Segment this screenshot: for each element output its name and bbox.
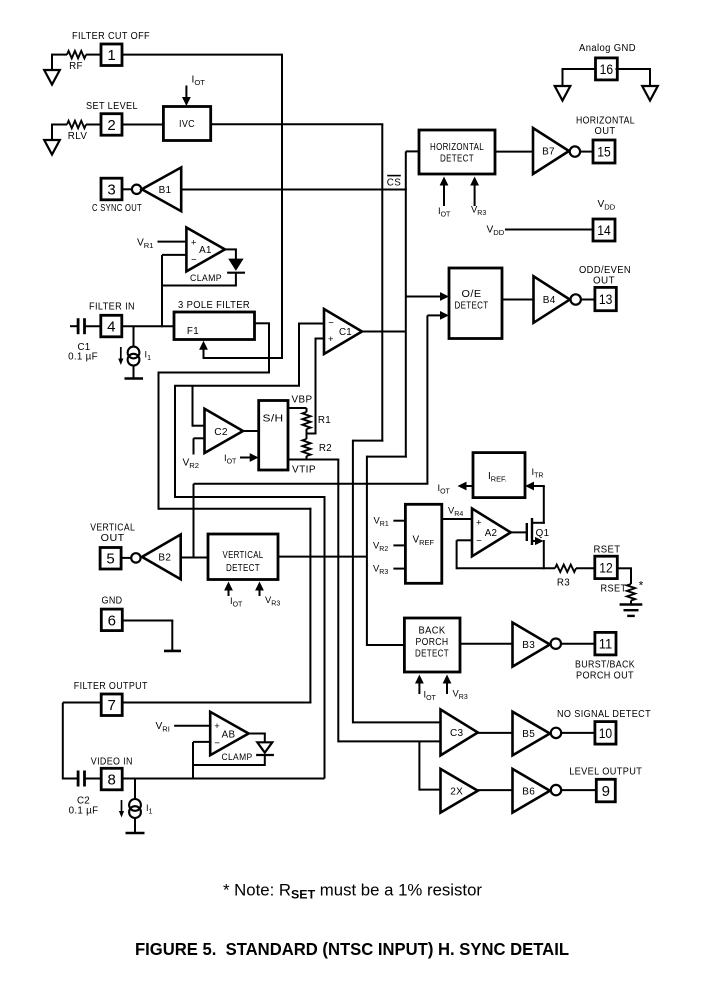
comparator C3 bbox=[441, 710, 478, 756]
pin 10 box bbox=[595, 722, 616, 745]
wire C2 output bbox=[243, 430, 259, 432]
IOT arrow into IVC bbox=[185, 86, 187, 101]
wire pin3 to B1 bubble bbox=[122, 188, 133, 190]
svg-text:VERTICAL: VERTICAL bbox=[90, 523, 135, 534]
block BACK PORCH DETECT bbox=[404, 618, 460, 672]
svg-text:+: + bbox=[328, 334, 334, 345]
pin 7 box bbox=[101, 694, 122, 716]
svg-text:NO SIGNAL DETECT: NO SIGNAL DETECT bbox=[557, 709, 651, 720]
node VTIP wire bbox=[306, 456, 308, 460]
arrow I1 direction (video) bbox=[121, 800, 123, 814]
svg-text:R2: R2 bbox=[319, 443, 332, 454]
IOT arrow out of IREF bbox=[464, 485, 474, 487]
wire CS dogleg to back porch detect bbox=[367, 456, 407, 458]
svg-text:FILTER OUTPUT: FILTER OUTPUT bbox=[74, 681, 148, 692]
svg-text:LEVEL OUTPUT: LEVEL OUTPUT bbox=[569, 767, 642, 778]
wire pin8 video line bbox=[123, 778, 325, 780]
wire A2 output to Q1 gate bbox=[511, 531, 527, 533]
wire pin5 to B2 bubble bbox=[121, 557, 131, 559]
svg-text:RF: RF bbox=[69, 61, 83, 72]
svg-text:2X: 2X bbox=[450, 786, 463, 797]
svg-text:C SYNC OUT: C SYNC OUT bbox=[92, 203, 142, 214]
buffer B6 bbox=[513, 769, 550, 813]
svg-text:7: 7 bbox=[108, 697, 116, 714]
arrow into O/E detect (vertical input) bbox=[427, 314, 443, 316]
wire pin12 to RSET resistor bbox=[617, 567, 632, 569]
B5 bubble bbox=[551, 728, 561, 738]
wire S/H to R1 bbox=[288, 407, 307, 409]
node VR2 stub bbox=[393, 544, 405, 546]
buffer B7 bbox=[533, 128, 569, 174]
IOT arrow into VERTICAL DETECT bbox=[228, 588, 230, 597]
ground bar (pin 6) bbox=[164, 650, 181, 653]
svg-text:9: 9 bbox=[602, 783, 610, 800]
ground (RF) bbox=[44, 70, 60, 85]
svg-text:RLV: RLV bbox=[68, 131, 88, 142]
wire VERTICAL DETECT output to back porch net bbox=[278, 556, 367, 558]
svg-text:14: 14 bbox=[597, 222, 611, 238]
block VERTICAL DETECT bbox=[208, 534, 278, 580]
node VR1 stub bbox=[393, 520, 405, 522]
svg-text:GND: GND bbox=[102, 596, 123, 607]
pin 14 box bbox=[593, 219, 615, 241]
wire AB inverting input to video net bbox=[193, 741, 210, 743]
ground bar (I1) bbox=[125, 377, 144, 380]
wire C3 to B5 bbox=[478, 732, 513, 734]
wire BACK PORCH DETECT to B3 bbox=[460, 643, 513, 645]
B4 bubble bbox=[571, 294, 581, 304]
wire IVC output bus bbox=[211, 123, 384, 125]
ground bar (I1 video) bbox=[126, 832, 145, 835]
svg-text:CLAMP: CLAMP bbox=[222, 752, 253, 763]
svg-text:OUT: OUT bbox=[595, 126, 616, 137]
block S/H sample-hold bbox=[259, 401, 288, 471]
svg-text:B7: B7 bbox=[542, 147, 555, 158]
comparator C1 bbox=[324, 309, 362, 354]
svg-text:DETECT: DETECT bbox=[455, 300, 489, 311]
B3 bubble bbox=[551, 639, 561, 649]
wire B3 to pin 11 bbox=[562, 643, 595, 645]
current source I1 (video in) bbox=[134, 779, 136, 800]
wire B5 to pin 10 bbox=[562, 732, 595, 734]
svg-text:R3: R3 bbox=[557, 578, 570, 589]
svg-text:PORCH OUT: PORCH OUT bbox=[576, 671, 634, 682]
svg-text:DETECT: DETECT bbox=[440, 154, 474, 165]
IOT arrow into HORIZONTAL DETECT bbox=[443, 183, 445, 207]
ground (RLV) bbox=[44, 140, 60, 155]
wire pin1 output to filter cutoff bus bbox=[122, 54, 283, 56]
svg-text:IVC: IVC bbox=[179, 118, 195, 130]
svg-text:B2: B2 bbox=[158, 552, 171, 563]
ground (pin16 right) bbox=[642, 86, 658, 101]
pin 1 box bbox=[101, 44, 122, 66]
VR3 arrow into HORIZONTAL DETECT bbox=[474, 183, 476, 207]
svg-text:5: 5 bbox=[106, 551, 114, 568]
wire A2 feedback to R3 bbox=[457, 539, 472, 541]
wire C1 output bbox=[362, 331, 406, 333]
svg-text:3 POLE FILTER: 3 POLE FILTER bbox=[178, 300, 250, 311]
svg-text:0.1 µF: 0.1 µF bbox=[69, 806, 99, 817]
diode (A1 clamp) bbox=[228, 259, 243, 271]
svg-text:15: 15 bbox=[597, 144, 611, 160]
block IREF bbox=[473, 453, 525, 498]
pin 16 box bbox=[596, 58, 618, 80]
wire filter cutoff bus vertical x=282 bbox=[281, 55, 283, 359]
svg-text:4: 4 bbox=[107, 318, 115, 335]
resistor R1 bbox=[302, 412, 310, 429]
resistor RLV bbox=[52, 124, 67, 126]
wire R1/R2 junction bbox=[306, 429, 308, 439]
IOT arrow into BACK PORCH DETECT bbox=[418, 681, 420, 695]
wire pin7 left to video coupling bbox=[63, 702, 101, 704]
svg-text:8: 8 bbox=[108, 771, 116, 788]
svg-text:OUT: OUT bbox=[101, 533, 125, 544]
wire C1 inverting input (video net) bbox=[175, 324, 325, 779]
svg-text:0.1 µF: 0.1 µF bbox=[68, 352, 98, 363]
wire RSET to ground bbox=[630, 601, 632, 605]
wire pin2 to IVC bbox=[122, 124, 163, 126]
wire 2X to B6 bbox=[478, 789, 513, 791]
pin 15 box bbox=[593, 140, 615, 163]
svg-text:−: − bbox=[328, 318, 334, 329]
wire pin2 to ground bbox=[51, 124, 53, 141]
svg-text:−: − bbox=[214, 738, 220, 749]
svg-text:FILTER CUT OFF: FILTER CUT OFF bbox=[72, 31, 150, 42]
pin 8 box bbox=[101, 768, 122, 790]
svg-text:AB: AB bbox=[222, 730, 236, 741]
svg-text:12: 12 bbox=[599, 559, 613, 575]
svg-text:B3: B3 bbox=[522, 640, 535, 651]
svg-text:BACK: BACK bbox=[419, 626, 446, 637]
wire pin4 to F1 bbox=[122, 325, 174, 327]
arrow I1 direction bbox=[120, 347, 122, 361]
wire pin16 right ground bbox=[616, 69, 651, 86]
buffer B4 bbox=[534, 276, 570, 323]
op-amp A2 bbox=[472, 509, 511, 557]
current source I1 (filter in) bbox=[133, 326, 135, 347]
block HORIZONTAL DETECT bbox=[419, 130, 495, 174]
capacitor C1 bbox=[70, 325, 78, 327]
svg-text:+: + bbox=[476, 518, 482, 529]
wire B1 to CS bus bbox=[181, 189, 407, 191]
wire B2 to VERTICAL DETECT bbox=[181, 557, 208, 559]
block VREF bbox=[405, 504, 441, 583]
svg-text:HORIZONTAL: HORIZONTAL bbox=[430, 142, 484, 153]
wire B6 to pin 9 bbox=[562, 789, 597, 791]
wire B4 to pin 13 bbox=[581, 299, 595, 301]
svg-text:16: 16 bbox=[600, 61, 614, 77]
pin 4 box bbox=[101, 315, 122, 337]
wire pin1 to ground bbox=[51, 54, 53, 70]
svg-text:CS: CS bbox=[387, 178, 401, 189]
wire F1 output routing to pin 7 net bbox=[255, 322, 271, 324]
resistor RSET bbox=[627, 584, 635, 601]
wire pin6 to ground bbox=[122, 620, 173, 622]
svg-text:1: 1 bbox=[107, 47, 115, 64]
capacitor C2 bbox=[63, 778, 79, 780]
svg-text:CLAMP: CLAMP bbox=[190, 273, 222, 284]
svg-text:13: 13 bbox=[599, 291, 613, 307]
buffer B2 bbox=[142, 535, 181, 580]
svg-text:VIDEO IN: VIDEO IN bbox=[91, 757, 133, 768]
pin 6 box bbox=[101, 609, 122, 631]
svg-text:Analog GND: Analog GND bbox=[579, 43, 636, 54]
svg-text:HORIZONTAL: HORIZONTAL bbox=[576, 116, 635, 127]
svg-text:10: 10 bbox=[599, 725, 613, 741]
svg-text:Q1: Q1 bbox=[536, 528, 550, 539]
pin 9 box bbox=[596, 779, 615, 802]
Q1 source wire with arrow bbox=[532, 540, 537, 542]
buffer B1 bbox=[142, 167, 181, 211]
arrow ITR into IREF bbox=[531, 485, 545, 487]
svg-text:C1: C1 bbox=[339, 327, 352, 338]
block O/E DETECT bbox=[449, 268, 502, 339]
svg-text:RSET: RSET bbox=[594, 545, 621, 556]
svg-text:DETECT: DETECT bbox=[415, 649, 449, 660]
diode (AB clamp) bbox=[257, 742, 272, 752]
svg-text:A1: A1 bbox=[199, 245, 212, 256]
VR3 arrow into BACK PORCH DETECT bbox=[446, 681, 448, 695]
svg-text:2: 2 bbox=[107, 117, 115, 134]
transistor Q1 bbox=[526, 523, 528, 541]
svg-text:RSET: RSET bbox=[601, 584, 627, 595]
svg-text:*: * bbox=[639, 579, 644, 593]
wire video net branch to C2 bbox=[192, 386, 194, 427]
op-amp AB bbox=[210, 712, 248, 755]
comparator C2 bbox=[205, 409, 244, 453]
svg-text:DETECT: DETECT bbox=[226, 563, 260, 574]
svg-text:* Note: RSET must be a 1% resi: * Note: RSET must be a 1% resistor bbox=[223, 882, 483, 902]
Q1 drain wire bbox=[532, 522, 545, 524]
svg-text:−: − bbox=[191, 254, 197, 265]
svg-text:FILTER IN: FILTER IN bbox=[89, 302, 135, 313]
pin 5 box bbox=[100, 548, 121, 570]
wire B7 to pin 15 bbox=[581, 151, 593, 153]
ground (pin16 left) bbox=[555, 86, 571, 101]
svg-text:B4: B4 bbox=[543, 295, 556, 306]
svg-text:VERTICAL: VERTICAL bbox=[223, 550, 264, 561]
wire AB feedback bbox=[193, 764, 265, 766]
resistor RF bbox=[52, 54, 67, 56]
buffer B5 bbox=[513, 712, 550, 756]
arrow into 3-pole-filter control bbox=[203, 347, 205, 359]
wire 2X input branch bbox=[418, 741, 420, 790]
wire HORIZONTAL DETECT to B7 bbox=[495, 151, 533, 153]
wire AB output bbox=[249, 733, 266, 735]
B1 inverter bubble bbox=[132, 185, 141, 194]
svg-text:F1: F1 bbox=[187, 326, 199, 337]
svg-text:−: − bbox=[476, 536, 482, 547]
wire A1 feedback bbox=[161, 285, 236, 287]
wire R3 to pin 12 bbox=[576, 567, 595, 569]
svg-text:B5: B5 bbox=[522, 729, 535, 740]
wire VDD to pin 14 bbox=[505, 229, 593, 231]
pin 3 box bbox=[101, 178, 122, 200]
B7 bubble bbox=[570, 146, 580, 156]
B2 inverter bubble bbox=[131, 553, 140, 562]
svg-text:C2: C2 bbox=[214, 427, 228, 438]
resistor R3 bbox=[555, 565, 576, 572]
svg-text:6: 6 bbox=[108, 612, 116, 629]
svg-text:BURST/BACK: BURST/BACK bbox=[575, 660, 635, 671]
svg-text:B6: B6 bbox=[522, 786, 535, 797]
earth ground (RSET) bbox=[620, 603, 643, 605]
node VR3 stub bbox=[393, 568, 405, 570]
svg-text:+: + bbox=[191, 237, 197, 248]
wire A1 inverting input bbox=[162, 254, 186, 256]
svg-text:ODD/EVEN: ODD/EVEN bbox=[579, 265, 631, 276]
svg-text:R1: R1 bbox=[318, 415, 331, 426]
comparator 2X bbox=[441, 769, 478, 813]
svg-text:PORCH: PORCH bbox=[416, 637, 449, 648]
svg-text:11: 11 bbox=[599, 636, 613, 652]
svg-text:3: 3 bbox=[107, 181, 115, 198]
block IVC bbox=[163, 107, 210, 141]
op-amp A1 bbox=[186, 228, 225, 272]
svg-text:+: + bbox=[214, 721, 220, 732]
svg-text:FIGURE 5. STANDARD (NTSC INPU: FIGURE 5. STANDARD (NTSC INPUT) H. SYNC … bbox=[135, 939, 569, 959]
svg-text:OUT: OUT bbox=[593, 276, 615, 287]
pin 2 box bbox=[101, 114, 122, 136]
buffer B3 bbox=[513, 623, 550, 667]
wire VREF to A2 + bbox=[442, 518, 472, 520]
pin 12 box bbox=[595, 556, 618, 578]
wire O/E to B4 bbox=[502, 299, 534, 301]
wire pin16 left ground bbox=[563, 69, 596, 86]
svg-text:B1: B1 bbox=[159, 185, 172, 196]
svg-text:A2: A2 bbox=[485, 528, 498, 539]
svg-text:S/H: S/H bbox=[263, 414, 284, 425]
svg-text:VBP: VBP bbox=[292, 395, 313, 406]
B6 bubble bbox=[551, 785, 561, 795]
wire filter cutoff into F1 bottom bbox=[204, 357, 284, 359]
pin 13 box bbox=[595, 287, 616, 310]
wire vertical-detect output to O/E detect bbox=[194, 483, 429, 485]
arrow CS bus into O/E detect bbox=[406, 296, 443, 298]
wire CS bus vertical bbox=[405, 151, 407, 457]
wire C1 + input from R1/R2 divider bbox=[306, 339, 325, 434]
resistor R2 bbox=[302, 439, 310, 456]
svg-text:O/E: O/E bbox=[462, 289, 482, 300]
svg-text:SET LEVEL: SET LEVEL bbox=[86, 101, 138, 112]
VR3 arrow into VERTICAL DETECT bbox=[259, 588, 261, 597]
svg-text:VTIP: VTIP bbox=[292, 465, 316, 476]
wire A1 output bbox=[225, 248, 237, 250]
svg-text:C3: C3 bbox=[450, 728, 464, 739]
pin 11 box bbox=[595, 632, 616, 655]
